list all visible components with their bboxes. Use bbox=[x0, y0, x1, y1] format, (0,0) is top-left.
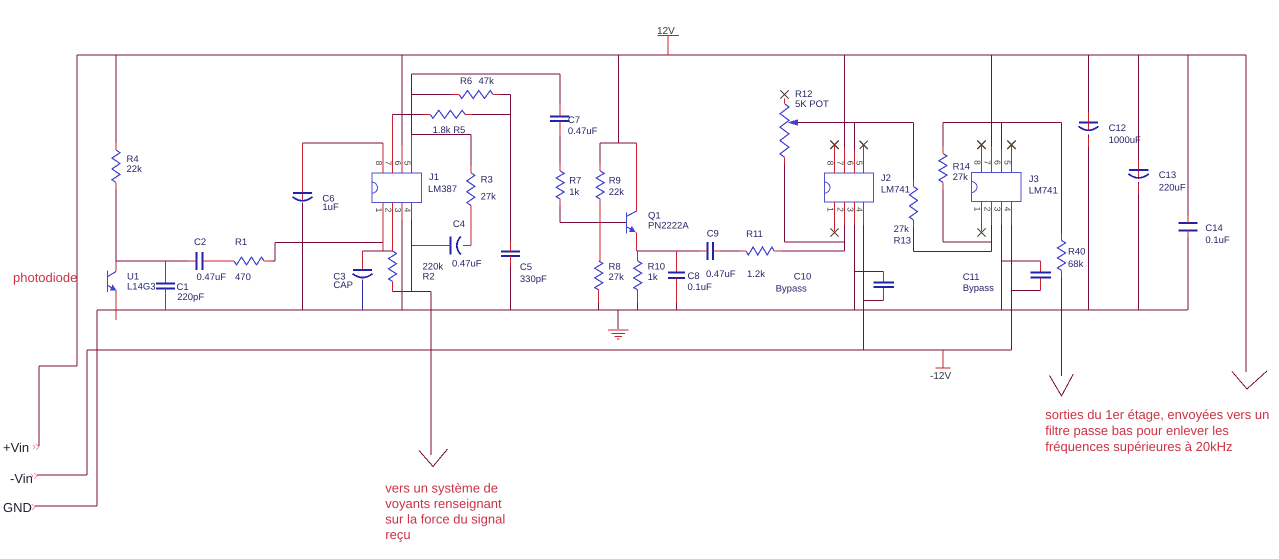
wire J3 pin4 to -12V bbox=[1011, 202, 1013, 226]
svg-text:5K POT: 5K POT bbox=[795, 99, 829, 110]
svg-text:LM741: LM741 bbox=[1029, 186, 1058, 197]
wire photodiode/+Vin line left vertical bbox=[39, 55, 77, 446]
resistor R4 wire bbox=[115, 55, 117, 261]
svg-text:R10: R10 bbox=[648, 262, 665, 273]
svg-text:C9: C9 bbox=[707, 229, 719, 240]
wire R5 R6 to C5 bbox=[510, 95, 512, 252]
svg-text:-12V: -12V bbox=[930, 371, 951, 382]
svg-text:R1: R1 bbox=[235, 237, 247, 248]
capacitor C12 wire bbox=[1088, 55, 1090, 123]
resistor R40 wire bbox=[1061, 123, 1063, 377]
svg-text:27k: 27k bbox=[894, 224, 910, 235]
resistor R9 bbox=[596, 171, 604, 199]
capacitor C9 bbox=[707, 242, 709, 260]
svg-text:47k: 47k bbox=[479, 76, 495, 87]
capacitor C14 bbox=[1179, 223, 1198, 231]
wire R6 line bbox=[412, 94, 511, 96]
resistor R5 bbox=[430, 110, 465, 118]
wire R12 wiper to J2 pin6 bbox=[798, 122, 914, 124]
resistor R2 bbox=[389, 251, 397, 282]
wire R9 to base R8 bbox=[599, 199, 601, 261]
resistor R11 bbox=[746, 247, 774, 255]
svg-text:0.47uF: 0.47uF bbox=[197, 272, 227, 283]
svg-text:GND: GND bbox=[3, 500, 32, 515]
svg-text:1000uF: 1000uF bbox=[1109, 135, 1141, 146]
wire R10 top bbox=[637, 251, 639, 261]
wire J1 pin7 to R5 line bbox=[392, 114, 394, 173]
transistor U1 phototransistor bbox=[115, 261, 117, 320]
capacitor C13 bbox=[1138, 170, 1140, 179]
wire R6 top loop to C7 bbox=[412, 74, 560, 117]
svg-text:27k: 27k bbox=[609, 272, 625, 283]
wire R1 to J1 pin1 bbox=[264, 243, 383, 262]
no-connect X J3 pin5 bbox=[1011, 145, 1013, 173]
svg-text:vers un système de: vers un système de bbox=[385, 481, 498, 496]
resistor R14 bbox=[939, 154, 947, 183]
capacitor C7 bbox=[550, 117, 570, 122]
svg-text:C7: C7 bbox=[568, 115, 580, 126]
svg-text:photodiode: photodiode bbox=[13, 270, 77, 285]
svg-text:27k: 27k bbox=[481, 192, 497, 203]
svg-text:Bypass: Bypass bbox=[963, 283, 994, 294]
wire R3 to C4 bbox=[463, 205, 471, 245]
svg-text:J3: J3 bbox=[1029, 174, 1039, 185]
capacitor C14 wire bbox=[1187, 55, 1189, 223]
capacitor C8 wire bbox=[676, 251, 678, 273]
svg-text:470: 470 bbox=[235, 272, 251, 283]
wire ground bottom rail bbox=[97, 309, 1188, 311]
capacitor C13 wire bbox=[1138, 55, 1140, 170]
node -Vin terminal bbox=[31, 473, 37, 479]
resistor R7 bbox=[556, 171, 564, 199]
svg-text:fréquences supérieures à 20kHz: fréquences supérieures à 20kHz bbox=[1045, 439, 1232, 454]
capacitor C10 bypass bbox=[855, 271, 884, 300]
wire Q1 emitter line bbox=[637, 250, 845, 252]
svg-text:PN2222A: PN2222A bbox=[648, 221, 689, 232]
wire J2 pin3 to ground bbox=[854, 202, 856, 225]
node GND terminal bbox=[29, 504, 35, 510]
svg-text:L14G3: L14G3 bbox=[127, 282, 156, 293]
wire J3 feedback top bbox=[943, 122, 1062, 124]
svg-text:22k: 22k bbox=[609, 187, 625, 198]
resistor R4 bbox=[112, 150, 120, 183]
svg-text:C11: C11 bbox=[963, 272, 980, 283]
svg-text:0.1uF: 0.1uF bbox=[688, 282, 712, 293]
wire R7 to Q1 base bbox=[560, 199, 626, 223]
svg-text:C8: C8 bbox=[688, 271, 700, 282]
svg-text:Bypass: Bypass bbox=[776, 284, 807, 295]
wire rail to R9 Q1 bbox=[600, 55, 637, 143]
arrow output stage 1 bbox=[1050, 374, 1074, 396]
svg-text:1k: 1k bbox=[648, 272, 658, 283]
svg-text:1uF: 1uF bbox=[322, 202, 339, 213]
wire R12 bottom to J2 pin2 bbox=[785, 157, 845, 242]
svg-text:C10: C10 bbox=[794, 272, 811, 283]
wire R8 to ground bbox=[598, 290, 600, 303]
capacitor C2 bbox=[196, 252, 198, 270]
transistor Q1 PN2222A bbox=[636, 143, 638, 251]
svg-text:R40: R40 bbox=[1068, 247, 1085, 258]
wire collector node to C2 bbox=[116, 260, 197, 262]
svg-text:12V: 12V bbox=[657, 26, 675, 37]
wire J2 pin7 to rail bbox=[843, 55, 845, 147]
op-amp J3 LM741 box bbox=[972, 173, 1021, 202]
svg-text:22k: 22k bbox=[127, 164, 143, 175]
potentiometer R12 bbox=[780, 90, 788, 98]
ground symbol bbox=[617, 310, 619, 329]
svg-text:LM387: LM387 bbox=[428, 184, 457, 195]
wire -12V long horizontal bbox=[37, 350, 1012, 475]
capacitor C6 bbox=[302, 143, 304, 201]
arrow to LED system bbox=[419, 449, 448, 467]
svg-text:C12: C12 bbox=[1109, 123, 1126, 134]
svg-text:0.47uF: 0.47uF bbox=[568, 126, 598, 137]
wire +12V top rail bbox=[77, 54, 1246, 56]
svg-text:C4: C4 bbox=[453, 219, 465, 230]
resistor R14 wire bbox=[943, 123, 992, 243]
wire J1 pin1 down bbox=[382, 202, 384, 251]
resistor R13 bbox=[910, 187, 918, 221]
svg-text:filtre passe bas pour enlever: filtre passe bas pour enlever les bbox=[1045, 423, 1229, 438]
op-amp J2 LM741 box bbox=[825, 173, 874, 202]
svg-text:voyants renseignant: voyants renseignant bbox=[385, 496, 502, 511]
svg-text:LM741: LM741 bbox=[881, 185, 910, 196]
svg-text:R6: R6 bbox=[460, 76, 472, 87]
svg-text:R7: R7 bbox=[569, 176, 581, 187]
power 12V symbol bbox=[657, 36, 679, 56]
svg-text:sorties du 1er étage, envoyées: sorties du 1er étage, envoyées vers un bbox=[1045, 407, 1269, 422]
svg-text:C13: C13 bbox=[1159, 170, 1176, 181]
svg-text:R3: R3 bbox=[481, 175, 493, 186]
wire C7 to R7 bbox=[559, 121, 561, 136]
capacitor C11 bypass bbox=[1002, 261, 1041, 290]
wire GND drop bbox=[35, 310, 97, 506]
resistor R10 bbox=[634, 261, 642, 290]
capacitor C5 bbox=[501, 251, 520, 256]
svg-text:27k: 27k bbox=[953, 172, 969, 183]
capacitor C12 bbox=[1088, 123, 1090, 131]
svg-text:0.47uF: 0.47uF bbox=[452, 259, 482, 270]
svg-text:J2: J2 bbox=[881, 173, 891, 184]
resistor R9 wire bbox=[599, 143, 601, 171]
svg-text:68k: 68k bbox=[1068, 259, 1084, 270]
svg-text:-Vin: -Vin bbox=[10, 471, 33, 486]
svg-text:R9: R9 bbox=[609, 176, 621, 187]
svg-text:R14: R14 bbox=[953, 162, 970, 173]
op-amp J1 LM387 box bbox=[372, 173, 422, 202]
wire C2 to R1 bbox=[203, 260, 235, 262]
power -12V symbol bbox=[936, 350, 951, 368]
arrow second stage output bbox=[1232, 371, 1267, 389]
wire right edge to arrow bbox=[1245, 55, 1247, 372]
svg-text:330pF: 330pF bbox=[520, 274, 547, 285]
resistor R8 bbox=[595, 261, 603, 290]
wire C4 to J1 pin4 bbox=[412, 245, 451, 247]
wire J1 pin5 up bbox=[411, 135, 413, 173]
node +Vin terminal bbox=[33, 444, 39, 450]
svg-text:J1: J1 bbox=[429, 172, 439, 183]
no-connect X J3 pin8 bbox=[981, 145, 983, 173]
wire R2 jog to output bbox=[393, 292, 432, 456]
resistor R2 wire bbox=[392, 202, 394, 291]
wire J2 pin4 to -12V bbox=[863, 202, 865, 225]
no-connect X J2 pin1 bbox=[834, 202, 836, 231]
svg-text:C14: C14 bbox=[1205, 223, 1222, 234]
resistor R13 wire bbox=[914, 123, 992, 252]
no-connect X J3 pin1 bbox=[981, 202, 983, 232]
svg-text:R2: R2 bbox=[423, 272, 435, 283]
svg-text:1.2k: 1.2k bbox=[747, 269, 765, 280]
wire J1 pin6 to rail bbox=[401, 145, 403, 173]
wire J1 pin4 down bbox=[411, 202, 413, 220]
svg-text:CAP: CAP bbox=[333, 280, 353, 291]
svg-text:R13: R13 bbox=[894, 236, 911, 247]
resistor R3 bbox=[467, 173, 475, 206]
resistor R6 bbox=[459, 91, 493, 99]
svg-text:0.47uF: 0.47uF bbox=[706, 269, 736, 280]
wire J1 pin8 to C6 bbox=[382, 143, 384, 173]
capacitor C4 bbox=[450, 237, 452, 255]
svg-text:C2: C2 bbox=[194, 237, 206, 248]
svg-text:C5: C5 bbox=[520, 262, 532, 273]
wire R5 line bbox=[393, 113, 511, 115]
capacitor C8 bbox=[668, 273, 685, 279]
wire J3 pin7 to rail bbox=[991, 55, 993, 146]
wire J3 pin3 to ground bbox=[1001, 202, 1003, 226]
wire J1 pin3 to ground bbox=[401, 202, 403, 220]
resistor R1 bbox=[234, 257, 264, 265]
svg-text:220pF: 220pF bbox=[177, 292, 204, 303]
no-connect X J2 pin8 bbox=[834, 145, 836, 173]
svg-text:R8: R8 bbox=[609, 262, 621, 273]
svg-text:sur la force du signal: sur la force du signal bbox=[385, 512, 505, 527]
resistor R40 bbox=[1058, 240, 1066, 270]
capacitor C3 bbox=[362, 251, 364, 270]
svg-text:220uF: 220uF bbox=[1159, 183, 1186, 194]
no-connect X J2 pin5 bbox=[863, 145, 865, 173]
red stubs overlay bbox=[116, 95, 1188, 278]
wire R10 to ground bbox=[637, 290, 639, 303]
capacitor C1 wire bbox=[164, 261, 166, 283]
svg-text:1k: 1k bbox=[569, 187, 579, 198]
svg-text:R11: R11 bbox=[746, 229, 763, 240]
wire J1 pin5 to R3 bbox=[412, 135, 471, 173]
svg-text:+Vin: +Vin bbox=[3, 440, 29, 455]
svg-text:0.1uF: 0.1uF bbox=[1205, 235, 1229, 246]
svg-text:reçu: reçu bbox=[385, 527, 410, 542]
